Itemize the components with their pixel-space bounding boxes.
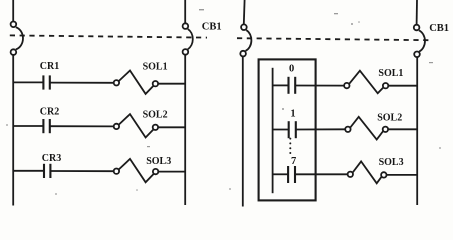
contact CR1 <box>43 75 49 89</box>
wire rung 3 right segment (right circuit) <box>387 174 418 176</box>
wire left rail top segment (right circuit) <box>243 0 246 24</box>
wire left rail lower segment (left circuit) <box>12 55 14 206</box>
wire rung 1 bus-to-contact (right circuit) <box>273 84 289 86</box>
internal bus wire (sequencer box) <box>272 68 274 193</box>
wire left rail top segment (left circuit) <box>12 0 14 22</box>
wire rung 2 contact-to-switch (right circuit) <box>296 128 346 130</box>
contact 0 <box>289 77 296 94</box>
wire rung 3 right segment (left circuit) <box>158 171 185 173</box>
svg-text:0: 0 <box>289 63 294 74</box>
contact CR2 <box>43 119 49 133</box>
svg-text:CB1: CB1 <box>202 22 222 33</box>
svg-text:CB1: CB1 <box>429 23 449 34</box>
wire rung 1 middle segment (left circuit) <box>50 82 114 84</box>
switch SOL1 (right circuit) <box>344 71 388 94</box>
contact 7 <box>288 166 295 183</box>
dashed tie line between CB1 poles (left circuit) <box>10 35 207 37</box>
contact 1 <box>289 121 296 138</box>
ellipsis dots between contact 1 and contact 7 <box>289 138 291 154</box>
wire rung 2 right segment (right circuit) <box>388 128 417 130</box>
svg-text:SOL1: SOL1 <box>378 68 403 79</box>
svg-text:1: 1 <box>290 108 295 119</box>
scan speckles (noise) <box>6 9 441 195</box>
circuit breaker CB1 left pole (left circuit) <box>11 22 23 55</box>
svg-text:7: 7 <box>291 156 296 167</box>
wire rung 3 middle segment (left circuit) <box>50 170 113 172</box>
wire rung 3 bus-to-contact (right circuit) <box>273 173 289 175</box>
wire right rail top segment (left circuit) <box>184 0 186 23</box>
circuit breaker CB1 left pole (right circuit) <box>240 24 251 56</box>
wire right rail top segment (right circuit) <box>416 0 418 25</box>
wire rung 1 left segment (left circuit) <box>13 81 43 83</box>
switch SOL2 (left circuit) <box>114 114 158 137</box>
svg-text:SOL2: SOL2 <box>377 112 402 123</box>
svg-text:SOL3: SOL3 <box>146 156 171 167</box>
dashed tie line between CB1 poles (right circuit) <box>237 38 431 40</box>
contact CR3 <box>44 164 50 178</box>
circuit breaker CB1 right pole (right circuit) <box>414 25 425 57</box>
svg-text:SOL2: SOL2 <box>143 109 168 120</box>
wire right rail lower segment (left circuit) <box>184 55 186 205</box>
svg-text:SOL1: SOL1 <box>143 61 168 72</box>
wire right rail lower segment (right circuit) <box>416 57 418 205</box>
wire rung 1 contact-to-switch (right circuit) <box>295 85 344 87</box>
svg-text:CR1: CR1 <box>40 61 59 72</box>
wire rung 1 right segment (right circuit) <box>388 85 417 87</box>
svg-text:CR3: CR3 <box>42 153 61 164</box>
wire rung 3 contact-to-switch (right circuit) <box>295 173 348 175</box>
wire left rail lower segment (right circuit) <box>242 57 244 207</box>
wire rung 2 middle segment (left circuit) <box>50 125 114 127</box>
wire rung 1 right segment (left circuit) <box>158 83 185 85</box>
wire rung 3 left segment (left circuit) <box>13 170 43 172</box>
circuit breaker CB1 right pole (left circuit) <box>183 23 193 54</box>
wire rung 2 left segment (left circuit) <box>13 125 43 127</box>
svg-text:CR2: CR2 <box>40 107 59 118</box>
switch SOL2 (right circuit) <box>345 117 388 140</box>
sequencer box <box>259 59 316 200</box>
switch SOL3 (left circuit) <box>114 159 159 182</box>
switch SOL3 (right circuit) <box>348 161 387 183</box>
wire rung 2 bus-to-contact (right circuit) <box>273 129 289 131</box>
switch SOL1 (left circuit) <box>114 71 158 94</box>
wire rung 2 right segment (left circuit) <box>158 126 185 128</box>
svg-text:SOL3: SOL3 <box>379 157 404 168</box>
